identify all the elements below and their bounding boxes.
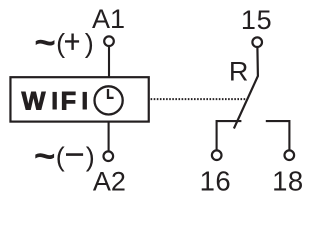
terminal 15	[252, 37, 262, 47]
svg-text:R: R	[229, 57, 249, 87]
dotted mechanical link	[151, 98, 246, 100]
svg-text:~: ~	[34, 22, 56, 63]
svg-text:(: (	[56, 142, 65, 172]
terminal A1	[104, 36, 114, 46]
clock/timer icon	[95, 86, 123, 114]
wire contact 18	[266, 121, 290, 151]
relay switch arm R	[234, 48, 258, 129]
svg-text:~: ~	[34, 136, 56, 177]
svg-text:15: 15	[241, 5, 272, 35]
terminal 16	[212, 150, 222, 160]
svg-text:W: W	[22, 88, 46, 116]
plus sign	[65, 34, 79, 50]
svg-text:): )	[85, 29, 94, 59]
svg-text:A2: A2	[93, 166, 126, 196]
svg-text:F: F	[61, 88, 77, 116]
WIFI module box	[10, 77, 148, 121]
svg-text:(: (	[56, 29, 65, 59]
wire A1 to WIFI box	[108, 46, 110, 77]
minus sign	[66, 153, 83, 156]
label WIFI	[22, 88, 87, 116]
svg-text:16: 16	[200, 166, 232, 197]
wire WIFI box to A2	[108, 122, 110, 152]
terminal 18	[285, 150, 295, 160]
terminal A2	[104, 151, 114, 161]
wire contact 16	[217, 121, 242, 151]
svg-text:18: 18	[272, 166, 304, 197]
svg-text:A1: A1	[92, 4, 125, 34]
